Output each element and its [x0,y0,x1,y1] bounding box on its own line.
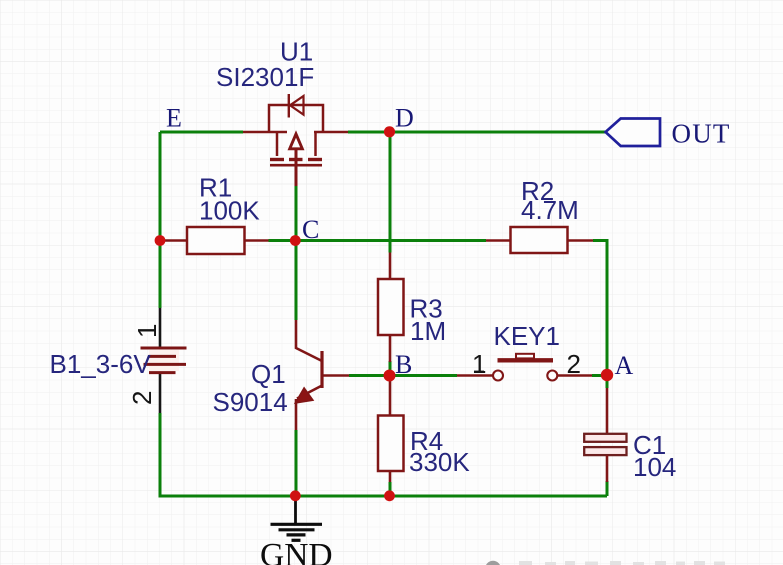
plates [141,348,187,373]
wire R2 to A corner [593,241,607,376]
svg-text:B1_3-6V: B1_3-6V [50,349,152,379]
source lead [243,131,287,134]
contact circle 2 [547,371,557,381]
wire E left vertical [159,132,162,308]
svg-text:1M: 1M [410,316,446,346]
contact circle 1 [493,371,503,381]
wire A to C1 [606,381,609,388]
actuator bump [516,354,534,359]
wire D to R3 vertical [389,132,392,253]
gate bar [270,164,322,167]
resistor R1 [160,227,269,254]
port OUT flag [606,119,661,147]
svg-text:C: C [302,215,319,244]
svg-text:104: 104 [633,452,676,482]
svg-text:GND: GND [260,537,333,565]
svg-text:2: 2 [567,349,581,379]
pin 2 lead [159,373,162,413]
svg-text:OUT: OUT [672,119,731,149]
svg-text:1: 1 [472,349,486,379]
switch KEY1 [457,354,592,381]
pin 1 lead [159,308,162,348]
watermark marks [519,561,725,565]
wire emitter to rail [295,430,298,496]
wire gate to collector [295,186,298,320]
junction dot C [290,235,301,246]
emitter arrow [295,388,313,403]
junction dot D [384,126,395,137]
junction dot left [155,235,166,246]
actuator bar [498,358,554,362]
battery glow [149,350,179,371]
mosfet U1 [243,94,348,186]
base bar [320,351,323,388]
pin 1 lead [457,374,493,377]
plate bottom [584,447,626,455]
channel bars [270,158,284,161]
svg-text:330K: 330K [409,447,470,477]
pin to rail [606,455,609,482]
wire D to OUT [348,131,605,134]
junction dot emitter-rail [290,490,301,501]
wire E top horizontal [160,131,243,134]
collector pin [296,320,322,361]
diode triangle [290,96,304,115]
svg-text:100K: 100K [199,196,260,226]
svg-text:E: E [166,103,182,132]
svg-text:1: 1 [132,324,162,338]
base pin [322,374,349,377]
svg-text:S9014: S9014 [213,387,288,417]
body arrow [290,134,303,149]
transistor Q1 [295,320,349,430]
capacitor C1 [584,388,626,482]
svg-text:A: A [615,351,634,380]
battery B1 [127,308,187,413]
junction dot R4-rail [384,490,395,501]
left drop [276,132,279,156]
wire C1 to rail [606,481,609,496]
svg-text:SI2301F: SI2301F [216,62,314,92]
junction dot B [384,370,396,382]
svg-text:B: B [395,350,412,379]
pin 2 lead [557,374,592,377]
pin from A [606,388,609,434]
gate pin [295,148,298,186]
body diode loop [269,105,323,132]
resistor R3 [378,253,404,363]
plate top [584,434,626,442]
svg-text:KEY1: KEY1 [494,321,561,351]
resistor R4 [378,378,404,495]
svg-text:Q1: Q1 [251,359,286,389]
wire R3 to B [389,361,392,375]
ground [271,496,323,540]
wire KEY1 to A [592,374,607,377]
junction dot A [601,369,613,381]
wire battery bottom to rail [160,413,607,496]
emitter pin [295,399,298,430]
watermark circle [485,561,501,565]
right drop [314,132,317,156]
wire R1 to R2 row [269,239,487,242]
resistor R2 [486,227,593,253]
emitter diagonal [297,386,322,399]
diode bar [288,94,290,118]
wire B to KEY1 [349,374,457,377]
svg-text:2: 2 [127,391,157,405]
svg-text:D: D [395,103,414,132]
svg-text:4.7M: 4.7M [521,195,579,225]
drain lead [314,131,348,134]
